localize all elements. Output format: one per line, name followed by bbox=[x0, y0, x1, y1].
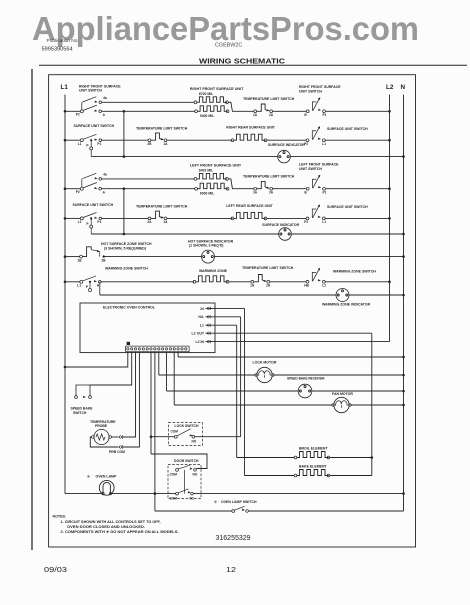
svg-text:P1: P1 bbox=[97, 220, 101, 224]
heater: broil element bbox=[294, 452, 330, 459]
wire speed bake indicator to N bbox=[312, 390, 404, 392]
svg-text:P2: P2 bbox=[76, 113, 80, 117]
svg-text:OVEN LAMP: OVEN LAMP bbox=[96, 475, 117, 479]
wire row5 switch to indicator bbox=[104, 256, 202, 258]
node L1 bbox=[61, 84, 69, 494]
wire pin13 to fan motor bbox=[173, 352, 175, 405]
svg-text:N: N bbox=[401, 84, 406, 91]
wire row6b indicator to N bbox=[349, 294, 404, 296]
wire row4 to L2 bbox=[325, 217, 390, 219]
svg-text:SWITCH: SWITCH bbox=[73, 411, 87, 415]
wire row4b indicator to N bbox=[291, 233, 403, 235]
wire pin2 to speed bake switch bbox=[90, 352, 132, 385]
lamp: surface indicator left rear bbox=[279, 228, 292, 241]
wire fan motor to N bbox=[351, 404, 404, 406]
switch: surface unit switch row4 right bbox=[304, 205, 326, 225]
node N bbox=[401, 84, 406, 511]
bend N/L down to lock switch out bbox=[240, 317, 242, 437]
wire probe left loop bbox=[90, 437, 118, 447]
lamp: warming zone indicator bbox=[336, 289, 349, 302]
svg-text:2A: 2A bbox=[266, 284, 271, 288]
svg-text:4a: 4a bbox=[103, 96, 107, 100]
sw right-front left poles bbox=[76, 96, 107, 117]
wire row1 lower to element bbox=[102, 110, 195, 112]
svg-text:316255329: 316255329 bbox=[216, 535, 251, 542]
EOC stub 24V bbox=[200, 307, 244, 311]
label hot surface zone switch bbox=[101, 242, 152, 251]
svg-text:1A: 1A bbox=[163, 142, 168, 146]
svg-text:6700 MIL: 6700 MIL bbox=[199, 92, 213, 96]
wire row4 limit to element bbox=[167, 217, 233, 219]
svg-text:Publication No.: Publication No. bbox=[47, 38, 79, 44]
svg-text:✳: ✳ bbox=[87, 474, 91, 479]
wire row4 switch to limit bbox=[102, 217, 149, 219]
svg-text:24: 24 bbox=[200, 307, 204, 311]
EOC stub L2 IN bbox=[195, 340, 389, 344]
svg-text:L1: L1 bbox=[61, 84, 69, 91]
wire row2 to L2 bbox=[325, 139, 390, 141]
svg-text:P1: P1 bbox=[97, 142, 101, 146]
EOC stub N/L bbox=[198, 315, 240, 319]
wire broil to L2OUT vertical bbox=[330, 457, 372, 459]
wire row1 to L2 bbox=[326, 110, 390, 112]
svg-text:UNIT SWITCH: UNIT SWITCH bbox=[299, 167, 322, 171]
wire lamp row drop to lamp switch bbox=[154, 494, 156, 511]
connector probe bbox=[119, 435, 123, 438]
temperature limit switch row3 bbox=[253, 181, 274, 194]
wire row2 switch to limit bbox=[102, 139, 149, 141]
svg-text:6000 MIL: 6000 MIL bbox=[200, 191, 214, 195]
svg-text:HOT SURFACE ZONE SWITCH: HOT SURFACE ZONE SWITCH bbox=[101, 242, 152, 246]
wire row1 L1 to switch bbox=[65, 110, 80, 112]
header rule bbox=[39, 64, 467, 66]
connector strip P1 bbox=[126, 342, 190, 352]
svg-text:9400 MIL: 9400 MIL bbox=[200, 114, 214, 118]
wire row3 L1 to switch bbox=[65, 188, 80, 190]
wire lamp switch to N bbox=[248, 510, 403, 512]
wire bake to L2OUT vertical bbox=[330, 475, 372, 477]
switch: surface unit switch row2 bbox=[78, 134, 102, 150]
svg-text:COM: COM bbox=[171, 430, 179, 434]
wire speed bake indicator row bbox=[167, 390, 299, 392]
wire row4 L1 to switch bbox=[65, 217, 80, 219]
page scan edge bbox=[31, 69, 33, 550]
publication number bbox=[42, 38, 79, 53]
svg-text:UNIT SWITCH: UNIT SWITCH bbox=[79, 89, 102, 93]
wire pin3 to probe bbox=[122, 352, 136, 437]
wire row1 element to limit switch bbox=[232, 110, 254, 112]
wire row1 limit to right switch bbox=[273, 110, 307, 112]
svg-text:P1: P1 bbox=[323, 113, 327, 117]
svg-text:HB: HB bbox=[304, 283, 309, 287]
svg-text:ELECTRONIC OVEN CONTROL: ELECTRONIC OVEN CONTROL bbox=[103, 305, 156, 309]
switch: oven lamp switch bbox=[155, 506, 248, 512]
svg-text:1A: 1A bbox=[250, 284, 255, 288]
label oven lamp switch bbox=[214, 500, 257, 505]
switch: surface unit switch row4 bbox=[78, 213, 102, 229]
svg-text:SURFACE UNIT SWITCH: SURFACE UNIT SWITCH bbox=[327, 205, 368, 209]
EOC stub L2 OUT bbox=[192, 332, 372, 336]
heater: left front surface unit (dual) bbox=[190, 164, 242, 196]
wire row3 lower to element bbox=[102, 188, 195, 190]
wire pin14 to N row bbox=[177, 352, 179, 357]
switch: right front surface unit switch (left) bbox=[79, 85, 121, 93]
wire row6b to indicator bbox=[100, 294, 336, 296]
svg-text:DOOR SWITCH: DOOR SWITCH bbox=[174, 459, 199, 463]
svg-text:TEMPERATURE LIMIT SWITCH: TEMPERATURE LIMIT SWITCH bbox=[243, 174, 295, 178]
pilot drop row2 bbox=[90, 150, 92, 157]
motor: fan motor bbox=[332, 397, 351, 412]
svg-text:PROBE: PROBE bbox=[95, 424, 108, 428]
svg-text:L2: L2 bbox=[322, 283, 326, 287]
svg-text:RIGHT REAR SURFACE UNIT: RIGHT REAR SURFACE UNIT bbox=[226, 126, 275, 130]
svg-text:✳: ✳ bbox=[214, 500, 218, 505]
lamp: speed bake indicator bbox=[298, 384, 312, 398]
svg-text:OVEN LAMP SWITCH: OVEN LAMP SWITCH bbox=[221, 500, 257, 504]
svg-text:2A: 2A bbox=[269, 113, 274, 117]
svg-text:CGEBW2C: CGEBW2C bbox=[215, 43, 242, 49]
svg-text:12: 12 bbox=[226, 565, 236, 574]
svg-text:OVEN DOOR CLOSED AND UNLOCKED.: OVEN DOOR CLOSED AND UNLOCKED. bbox=[67, 525, 145, 529]
switch: left front surface unit switch (left) bbox=[76, 173, 107, 195]
wire row6 to L2 bbox=[325, 281, 390, 283]
svg-text:L1: L1 bbox=[322, 220, 326, 224]
svg-text:P1: P1 bbox=[323, 190, 327, 194]
temperature limit switch row2 bbox=[147, 133, 168, 146]
EOC stub L1 bbox=[200, 324, 237, 328]
svg-text:LEFT REAR SURFACE UNIT: LEFT REAR SURFACE UNIT bbox=[226, 204, 273, 208]
svg-text:BAKE ELEMENT: BAKE ELEMENT bbox=[299, 464, 327, 468]
wire row N-feed 357 bbox=[178, 356, 403, 358]
svg-text:TEMPERATURE LIMIT SWITCH: TEMPERATURE LIMIT SWITCH bbox=[136, 127, 188, 131]
svg-text:1A: 1A bbox=[253, 113, 258, 117]
svg-text:4a: 4a bbox=[103, 173, 107, 177]
wire pin8 to oven lamp row bbox=[154, 352, 156, 494]
svg-text:TEMPERATURE LIMIT SWITCH: TEMPERATURE LIMIT SWITCH bbox=[242, 266, 294, 270]
svg-text:1. CIRCUIT SHOWN WITH ALL CON: 1. CIRCUIT SHOWN WITH ALL CONTROLS SET T… bbox=[61, 520, 161, 524]
svg-text:NO: NO bbox=[193, 473, 198, 477]
svg-text:COM: COM bbox=[170, 496, 178, 500]
svg-text:FAN MOTOR: FAN MOTOR bbox=[332, 392, 353, 396]
wire door switch feed bbox=[151, 454, 207, 469]
svg-text:N/L: N/L bbox=[198, 315, 205, 319]
wire lock motor row bbox=[159, 374, 256, 376]
switch: warming zone switch right bbox=[304, 268, 326, 288]
wire oven lamp row bbox=[65, 493, 102, 495]
svg-text:09/03: 09/03 bbox=[44, 567, 67, 574]
wire row4b pilot to indicator bbox=[91, 233, 279, 235]
notes bbox=[53, 515, 179, 535]
heater: right front surface unit (dual) bbox=[190, 87, 244, 118]
temperature limit switch row1 bbox=[253, 104, 274, 117]
svg-text:WARMING ZONE INDICATOR: WARMING ZONE INDICATOR bbox=[322, 303, 371, 307]
junction drop row3 to row4b bbox=[123, 189, 125, 234]
wire pin9 to lock motor bbox=[158, 352, 160, 375]
label oven lamp bbox=[87, 474, 117, 479]
svg-text:TEMPERATURE LIMIT SWITCH: TEMPERATURE LIMIT SWITCH bbox=[136, 205, 188, 209]
switch: warming zone switch bbox=[77, 276, 101, 292]
wire row5 L1 to switch bbox=[65, 256, 80, 258]
svg-text:1A: 1A bbox=[163, 220, 168, 224]
wire row6 L1 to switch bbox=[65, 281, 80, 283]
svg-text:L1: L1 bbox=[78, 142, 82, 146]
svg-text:2. COMPONENTS WITH ✳ DO NOT A: 2. COMPONENTS WITH ✳ DO NOT APPEAR ON AL… bbox=[61, 530, 179, 534]
svg-text:L2 IN: L2 IN bbox=[195, 340, 204, 344]
wire lock motor to N bbox=[274, 374, 404, 376]
temperature limit switch row4 bbox=[147, 211, 168, 224]
wire probe right to connector bbox=[111, 436, 118, 438]
wire row6 element to limit bbox=[229, 281, 251, 283]
wire pin11 to speed bake indicator bbox=[166, 352, 168, 391]
svg-text:NO: NO bbox=[192, 440, 197, 444]
svg-text:RIGHT FRONT SURFACE UNIT: RIGHT FRONT SURFACE UNIT bbox=[190, 87, 244, 91]
wire row3 to L2 bbox=[326, 188, 390, 190]
svg-text:SURFACE UNIT SWITCH: SURFACE UNIT SWITCH bbox=[73, 203, 114, 207]
label hot surface indicator bbox=[188, 239, 234, 247]
heater: right rear surface unit bbox=[231, 134, 267, 141]
svg-text:L2 OUT: L2 OUT bbox=[192, 332, 205, 336]
heater: bake element bbox=[294, 470, 330, 477]
lamp: surface indicator right rear bbox=[278, 150, 291, 163]
heater: warming zone element bbox=[193, 276, 229, 283]
svg-text:SURFACE INDICATOR: SURFACE INDICATOR bbox=[262, 223, 299, 227]
switch: speed bake switch bbox=[71, 385, 94, 415]
switch: right front surface unit switch (right) bbox=[304, 97, 326, 117]
svg-text:LEFT FRONT SURFACE UNIT: LEFT FRONT SURFACE UNIT bbox=[190, 164, 242, 168]
bend L2 OUT down to elements bbox=[371, 333, 373, 475]
svg-text:NC: NC bbox=[190, 496, 195, 500]
wire bake feed bbox=[245, 475, 295, 477]
svg-text:LOCK MOTOR: LOCK MOTOR bbox=[253, 360, 277, 364]
wire lock switch feed bbox=[151, 436, 174, 438]
pilot drop row4 bbox=[90, 228, 92, 234]
svg-text:L1: L1 bbox=[78, 220, 82, 224]
svg-text:2B: 2B bbox=[147, 142, 152, 146]
junction drop row1 to row2b bbox=[123, 111, 125, 156]
relay box: lock switch bbox=[168, 423, 202, 446]
bend 24V down to bake feed bbox=[244, 308, 246, 475]
connector probe common bbox=[119, 445, 123, 448]
svg-text:NOTES:: NOTES: bbox=[53, 515, 67, 519]
wire row3 limit to right switch bbox=[273, 188, 307, 190]
wire row2 element to right switch bbox=[267, 139, 306, 141]
svg-text:(3 SHOWN, 5 REQUIRED): (3 SHOWN, 5 REQUIRED) bbox=[104, 247, 146, 251]
wire lock switch out bbox=[195, 436, 241, 438]
svg-text:2B: 2B bbox=[102, 258, 107, 262]
resistor: temperature probe bbox=[92, 429, 112, 444]
node L2 bbox=[386, 84, 394, 342]
svg-text:6402 MIL: 6402 MIL bbox=[199, 169, 213, 173]
heater: left rear surface unit bbox=[231, 212, 267, 219]
bend L1 down to broil feed bbox=[236, 325, 238, 457]
svg-text:P2: P2 bbox=[304, 220, 308, 224]
wire row2b pilot to indicator bbox=[91, 156, 278, 158]
label temperature probe bbox=[90, 420, 116, 428]
svg-text:WARMING ZONE: WARMING ZONE bbox=[199, 269, 228, 273]
svg-text:BROIL ELEMENT: BROIL ELEMENT bbox=[299, 446, 328, 450]
lamp: hot surface indicator bbox=[202, 250, 215, 263]
wire pin7 to lock switch bbox=[150, 352, 152, 454]
wire broil feed bbox=[237, 457, 295, 459]
svg-text:P2: P2 bbox=[76, 190, 80, 194]
svg-text:WIRING SCHEMATIC: WIRING SCHEMATIC bbox=[199, 57, 286, 66]
svg-text:2A: 2A bbox=[269, 191, 274, 195]
svg-text:2A: 2A bbox=[147, 220, 152, 224]
wire row1 upper branch bbox=[102, 101, 194, 103]
temperature limit switch row6 bbox=[250, 275, 271, 288]
svg-text:PRB COM: PRB COM bbox=[109, 450, 125, 454]
relay box: door switch bbox=[168, 459, 201, 500]
lamp: oven lamp bbox=[99, 480, 114, 495]
svg-text:UNIT SWITCH: UNIT SWITCH bbox=[299, 89, 322, 93]
wire row3 element to limit switch bbox=[232, 188, 254, 190]
svg-text:LOCK SWITCH: LOCK SWITCH bbox=[175, 424, 199, 428]
svg-text:(1 SHOWN, 3 REQ'D): (1 SHOWN, 3 REQ'D) bbox=[189, 244, 223, 248]
svg-text:SURFACE UNIT SWITCH: SURFACE UNIT SWITCH bbox=[74, 124, 115, 128]
wire row2 limit to element bbox=[167, 139, 233, 141]
wire row6 switch to element bbox=[101, 281, 194, 283]
op-box U1 electronic oven control bbox=[80, 303, 215, 353]
svg-text:L1: L1 bbox=[322, 142, 326, 146]
drop row6 to indicator row bbox=[99, 282, 101, 295]
svg-text:SURFACE UNIT SWITCH: SURFACE UNIT SWITCH bbox=[327, 127, 368, 131]
svg-text:1A: 1A bbox=[253, 191, 258, 195]
svg-text:L1: L1 bbox=[77, 283, 81, 287]
wire row5 indicator to N bbox=[215, 256, 404, 258]
wire row6 limit to right switch bbox=[270, 281, 306, 283]
svg-text:1B: 1B bbox=[78, 258, 83, 262]
svg-text:SURFACE INDICATOR: SURFACE INDICATOR bbox=[268, 143, 305, 147]
wire fan motor row bbox=[174, 404, 332, 406]
wire row2 L1 to switch bbox=[65, 139, 80, 141]
svg-text:WARMING ZONE SWITCH: WARMING ZONE SWITCH bbox=[105, 267, 148, 271]
svg-text:5995390564: 5995390564 bbox=[42, 47, 73, 53]
wire pin4 to probe common bbox=[122, 352, 139, 447]
svg-text:SPEED BAKE RECEIVER: SPEED BAKE RECEIVER bbox=[287, 377, 325, 381]
svg-text:COM: COM bbox=[170, 473, 178, 477]
wire row4 element to right switch bbox=[267, 217, 306, 219]
svg-text:L2: L2 bbox=[386, 84, 394, 91]
wire row2b indicator to N bbox=[290, 156, 403, 158]
svg-text:WARMING ZONE SWITCH: WARMING ZONE SWITCH bbox=[333, 269, 376, 273]
switch: hot surface zone switch bbox=[78, 247, 107, 262]
switch: left front surface unit switch (right) bbox=[304, 175, 326, 195]
wire pin1 to L1 bbox=[65, 352, 128, 367]
schematic border frame bbox=[49, 75, 416, 547]
svg-text:TEMPERATURE LIMIT SWITCH: TEMPERATURE LIMIT SWITCH bbox=[243, 97, 295, 101]
switch: surface unit switch row2 right bbox=[304, 126, 326, 146]
motor: lock motor bbox=[255, 367, 274, 382]
wire row3 upper branch bbox=[102, 178, 194, 180]
svg-text:L1: L1 bbox=[200, 324, 204, 328]
